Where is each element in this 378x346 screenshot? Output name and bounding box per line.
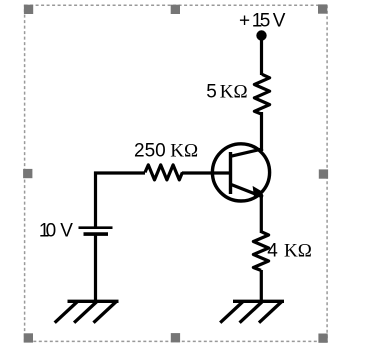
svg-text:KΩ: KΩ: [170, 141, 198, 162]
wire: R1 bottom to collector junction: [260, 112, 263, 151]
value label 10 V battery: [39, 221, 73, 242]
wire: left corner to R2 left: [94, 171, 145, 174]
transistor Q1 emitter arrowhead: [253, 186, 264, 198]
svg-text:5: 5: [260, 10, 271, 31]
resistor R3 4 KΩ (vertical zigzag): [253, 232, 268, 271]
svg-text:V: V: [273, 10, 286, 31]
selection handle top-middle: [171, 5, 180, 14]
ground (right, chassis) bar: [233, 300, 284, 303]
selection handle bottom-left: [24, 333, 33, 342]
battery B1 negative plate (short thick): [84, 232, 109, 236]
transistor Q1 circle: [212, 144, 269, 201]
selection handle bottom-right: [318, 334, 327, 343]
transistor Q1 collector lead: [231, 149, 264, 157]
svg-text:5: 5: [206, 82, 217, 103]
svg-text:V: V: [60, 221, 73, 242]
value label 250 KΩ: [134, 141, 198, 162]
selection handle mid-left: [23, 169, 32, 178]
ground (right) hatch strokes: [220, 302, 282, 323]
value label 5 KΩ: [206, 82, 247, 103]
wire: R3 bottom to right ground: [260, 270, 263, 302]
wire: corner down to battery + plate: [94, 172, 97, 228]
svg-text:KΩ: KΩ: [220, 82, 248, 103]
node: supply terminal dot: [256, 30, 266, 40]
selection handle bottom-middle: [171, 333, 180, 342]
selection handle mid-right: [319, 169, 328, 178]
selection handle top-left: [24, 5, 33, 14]
svg-text:+: +: [239, 10, 250, 31]
ground (left) hatch strokes: [55, 302, 117, 323]
transistor Q1 base bar: [229, 152, 232, 194]
value label 4 KΩ: [267, 241, 312, 262]
battery B1 positive plate (long): [79, 226, 113, 229]
label +15 V supply: [239, 10, 286, 31]
resistor R2 250 KΩ (horizontal zigzag): [145, 165, 182, 180]
svg-text:KΩ: KΩ: [284, 241, 312, 262]
svg-text:250: 250: [134, 141, 166, 162]
ground (left, chassis) bar: [68, 300, 119, 303]
resistor R1 5 KΩ (vertical zigzag): [254, 74, 269, 114]
selection handle top-right: [318, 4, 327, 13]
svg-text:4: 4: [267, 241, 278, 262]
selection marquee dashed border: [25, 5, 328, 341]
wire: emitter down to R3 top: [260, 194, 263, 233]
wire: battery - plate down to left ground: [94, 235, 97, 302]
svg-text:0: 0: [46, 221, 57, 242]
wire: R2 right to transistor base: [182, 171, 230, 174]
wire: supply dot down to R1 top: [260, 38, 263, 75]
transistor Q1 emitter lead: [231, 184, 264, 197]
